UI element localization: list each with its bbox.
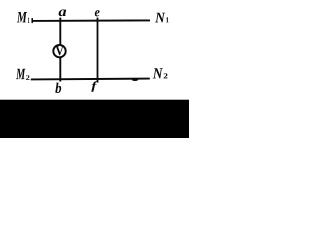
wire bottom thickening (scan artifact) [132, 79, 138, 81]
node label a [59, 10, 67, 17]
node label f [91, 81, 98, 91]
subscript 2 of M2 [26, 75, 30, 80]
wire left vertical upper segment (a to voltmeter) [59, 18, 61, 45]
voltmeter letter V [56, 46, 64, 55]
wire top (M1 to N1) [32, 19, 150, 22]
subscript 1 of M1 [28, 18, 30, 23]
wire bottom (M2 to N2) [31, 78, 150, 81]
terminal label N2 [153, 68, 163, 78]
terminal tick at M1 wire start [31, 18, 33, 23]
subscript 1 of N1 [166, 17, 169, 22]
voltmeter V (circle) [53, 45, 65, 57]
terminal label N1 [155, 13, 165, 23]
black bar at bottom (scan artifact) [0, 100, 189, 138]
wire right vertical (e to f) [97, 18, 99, 83]
node label e [95, 10, 100, 16]
wire left vertical lower segment (voltmeter to b) [59, 57, 61, 82]
terminal label M1 [17, 12, 27, 22]
subscript 2 of N2 [164, 73, 168, 78]
terminal label M2 [16, 69, 26, 79]
node label b [55, 83, 61, 93]
